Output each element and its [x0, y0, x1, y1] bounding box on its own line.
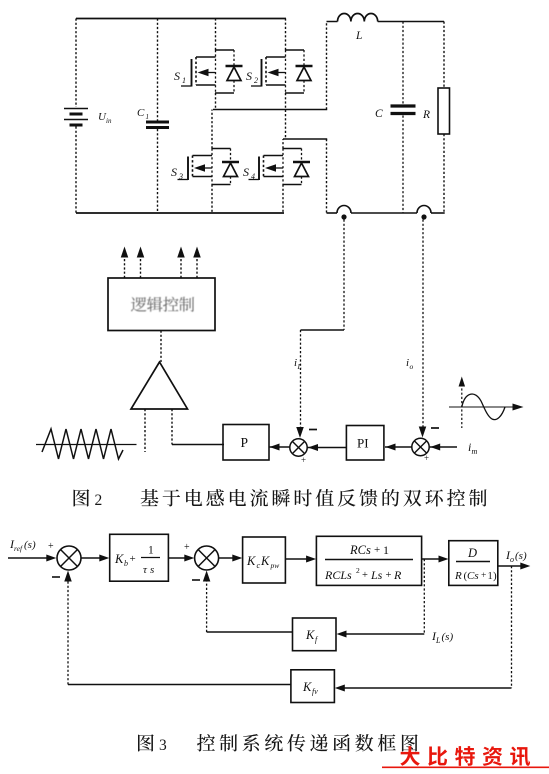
wire: S4 drain up to node B [282, 139, 284, 149]
wire+arrow: SB to gain block B2 [219, 555, 243, 562]
svg-text:+: + [424, 453, 429, 463]
svg-text:Cs: Cs [467, 570, 479, 582]
resistor R [422, 22, 450, 214]
svg-text:Ls: Ls [370, 568, 383, 582]
block B1: Kp + 1/τs [110, 534, 169, 581]
caption figure 3 [138, 734, 418, 754]
wire: output tap down to Kfv feedback [335, 566, 512, 692]
minus sign at M2 [431, 427, 439, 429]
svg-text:(s): (s) [515, 550, 527, 562]
svg-text:+: + [301, 455, 306, 465]
svg-text:D: D [467, 546, 477, 560]
wire: io feedback tap down to M2 [419, 220, 427, 438]
wire+arrow: im reference into M2 [430, 444, 457, 451]
svg-text:S: S [246, 69, 252, 83]
svg-text:2: 2 [254, 76, 258, 85]
svg-text:S: S [171, 165, 177, 179]
svg-text:c: c [257, 561, 261, 570]
wire+arrow: B2 to plant block B3 [285, 556, 316, 563]
diode D4 (body diode of S4) [283, 149, 311, 185]
wire: comparator carrier input stub [144, 409, 146, 452]
wire+arrow: input into summer SA [8, 555, 56, 562]
wire+arrow: output Io(s) [498, 563, 531, 570]
capacitor C1 [137, 19, 169, 214]
minus sign at SA feedback [52, 576, 60, 578]
svg-text:C: C [375, 108, 383, 120]
block B3: (RCs+1)/(RCLs^2+Ls+R) [316, 536, 421, 585]
svg-text:o: o [510, 555, 514, 564]
wire: S3 source to bottom rail [211, 185, 213, 214]
block B2: Kc·Kpwm [243, 537, 286, 583]
transistor S3 [171, 149, 212, 185]
diode D3 (body diode of S3) [212, 149, 240, 185]
svg-text:m: m [472, 447, 478, 456]
multiplier M2 (circle-X) [412, 438, 429, 455]
block Kf (inner feedback) [293, 618, 337, 651]
svg-text:C: C [137, 107, 145, 119]
svg-text:1: 1 [383, 543, 389, 557]
svg-text:4: 4 [251, 172, 255, 181]
svg-text:fv: fv [312, 687, 318, 696]
svg-text:in: in [106, 117, 112, 125]
wire: node B down to output return rail [326, 139, 328, 213]
svg-text:1: 1 [146, 113, 150, 121]
wire: S1 source down to node A bus [215, 93, 217, 110]
transistor S2 [246, 50, 286, 93]
svg-text:K: K [305, 628, 315, 642]
minus sign at SB feedback [192, 579, 200, 581]
capacitor C [375, 22, 416, 214]
block B4: D/(R(Cs+1)) [449, 541, 498, 586]
svg-text:1: 1 [182, 76, 186, 85]
wire+arrow: B3 to load block B4 [422, 556, 449, 563]
svg-text:2: 2 [356, 566, 360, 575]
battery Uin [64, 19, 112, 214]
svg-text:RCs: RCs [349, 543, 371, 557]
svg-text:+: + [48, 541, 54, 552]
inductor L [327, 13, 445, 42]
svg-text:1: 1 [488, 571, 493, 582]
wire: S1 drain to top bus [215, 19, 217, 51]
block PI (current regulator) [346, 426, 384, 461]
summing junction SB [195, 546, 219, 570]
svg-text:K: K [260, 554, 270, 568]
gate drive arrows (4) from logic block [121, 247, 201, 279]
svg-text:3: 3 [178, 172, 183, 181]
op-amp comparator (triangle) [131, 362, 188, 409]
wire: S2 drain to top bus [285, 19, 287, 51]
svg-text:+: + [184, 542, 190, 553]
svg-text:PI: PI [357, 436, 369, 451]
wire: S4 source to bottom rail [282, 185, 284, 214]
svg-text:3: 3 [159, 737, 167, 754]
wire: comparator control input from P [172, 409, 224, 445]
wire: S2 source down through bus to S4 drain [285, 93, 287, 140]
watermark 大比特资讯 (red) [400, 746, 530, 766]
svg-text:L: L [435, 636, 441, 645]
wire: bottom DC rail [76, 212, 284, 214]
wire: logic block to comparator [160, 331, 162, 363]
wire: top DC bus [76, 18, 286, 20]
svg-text:K: K [302, 680, 312, 694]
minus sign at M1 [309, 429, 317, 431]
block P (proportional) [223, 425, 269, 461]
svg-text:R: R [393, 568, 402, 582]
wire: IL(s) tap down to Kf feedback [337, 559, 425, 638]
caption figure 2 [74, 489, 487, 509]
wire+arrow: PI output into M1 [308, 444, 347, 451]
block Kfv (outer feedback) [291, 670, 335, 703]
svg-text:1: 1 [148, 545, 154, 557]
svg-text:P: P [241, 435, 249, 450]
svg-text:(s): (s) [442, 631, 454, 643]
red underline [382, 766, 549, 768]
svg-text:s: s [150, 564, 154, 576]
diode D2 (body diode of S2) [285, 50, 313, 93]
wire+arrow: B1 to summer SB [168, 555, 194, 562]
wire: S3 drain up to node A bus [211, 110, 213, 149]
svg-text:pw: pw [270, 561, 280, 570]
wire: node A up to filter [326, 22, 328, 110]
wire+arrow: Kfv to SA [64, 571, 291, 685]
wire+arrow: Kf to SB [203, 571, 293, 633]
svg-text:(s): (s) [24, 539, 36, 551]
node: io current tap [421, 214, 426, 219]
svg-text:L: L [355, 30, 362, 42]
svg-text:ref: ref [14, 544, 23, 553]
transistor S1 [174, 50, 216, 93]
svg-text:+: + [362, 570, 368, 581]
svg-text:b: b [124, 559, 128, 568]
svg-text:S: S [174, 69, 180, 83]
svg-text:L: L [297, 362, 302, 371]
svg-text:R: R [454, 570, 462, 582]
svg-text:+: + [374, 544, 380, 556]
wire: output return rail with sensor bumps [327, 206, 445, 213]
svg-text:o: o [410, 362, 414, 371]
svg-text:+: + [386, 570, 392, 581]
transistor S4 [243, 149, 283, 185]
multiplier M1 (circle-X) [290, 439, 307, 456]
svg-text:): ) [493, 570, 497, 582]
block: logic control (逻辑控制) [108, 278, 215, 331]
wire+arrow: SA to PI block B1 [81, 555, 109, 562]
svg-text:K: K [246, 554, 256, 568]
sine reference sketch [449, 377, 524, 429]
wire: iL feedback tap down to M1 [296, 220, 344, 439]
wire+arrow: multiplier M2 output into PI [385, 444, 412, 451]
svg-text:RCLs: RCLs [324, 568, 352, 582]
triangular carrier waveform [36, 429, 137, 459]
svg-text:R: R [422, 109, 430, 121]
svg-text:S: S [243, 165, 249, 179]
svg-text:K: K [114, 552, 124, 566]
node: iL current tap [341, 214, 346, 219]
svg-text:+: + [130, 553, 136, 565]
wire+arrow: multiplier M1 output into P [269, 444, 290, 451]
node B: right leg midpoint wire [283, 138, 327, 140]
summing junction SA [57, 546, 81, 570]
diode D1 (body diode of S1) [215, 50, 243, 93]
svg-text:+: + [481, 571, 486, 581]
svg-text:2: 2 [95, 492, 103, 509]
node A: left leg midpoint bus to output [213, 109, 327, 111]
